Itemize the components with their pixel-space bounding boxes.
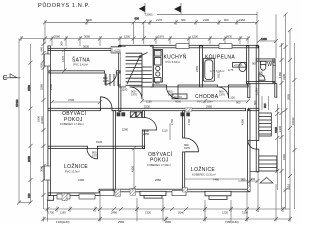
svg-text:4350: 4350: [130, 166, 134, 172]
svg-text:2080: 2080: [143, 132, 149, 136]
outer wall: left: [48, 46, 51, 196]
svg-text:15430: 15430: [15, 99, 19, 107]
svg-text:2695: 2695: [287, 94, 291, 100]
window top koupelna: [219, 44, 232, 49]
chimney callout 600: [132, 17, 146, 45]
svg-text:800: 800: [155, 81, 160, 85]
bottom dim slashes row1: [46, 207, 286, 211]
svg-text:1980: 1980: [261, 37, 267, 41]
corridor south wall mid: [112, 108, 246, 110]
stairs arrow: [127, 53, 148, 85]
center room interior dim: [132, 146, 136, 190]
WC bay bottom wall: [247, 82, 276, 84]
interior wall: kuchyn/koupelna divider: [200, 46, 203, 87]
room label chodba: [195, 94, 219, 104]
top dim slashes: [43, 20, 259, 24]
outer wall: bottom left segment: [48, 193, 101, 196]
strip wall below bay: [275, 84, 277, 98]
svg-text:1470: 1470: [61, 56, 65, 62]
svg-text:2580: 2580: [27, 85, 31, 91]
svg-text:1700: 1700: [48, 211, 54, 215]
corridor inner dim line: [140, 99, 250, 103]
kuchyn counter: [153, 50, 162, 83]
center room west wall upper stub: [142, 111, 144, 118]
door size texts: [103, 76, 225, 97]
room label kuchyn: [164, 54, 187, 65]
wall y=146 obyvaci-left bottom / loznice-left top: [48, 146, 88, 148]
chodba level box: [172, 94, 187, 99]
svg-text:3300: 3300: [282, 74, 286, 80]
entrance area dims: [262, 96, 269, 110]
center / loznice-right divider upper: [183, 111, 185, 138]
interior wall: stairhall west: [119, 46, 121, 112]
corridor north wall b: [178, 85, 218, 87]
svg-text:13000: 13000: [145, 12, 153, 16]
svg-text:900: 900: [252, 62, 257, 66]
entrance lower steps: [259, 156, 277, 171]
room label loznice left: [64, 162, 88, 174]
svg-text:±0,000: ±0,000: [174, 95, 183, 99]
svg-text:1970: 1970: [131, 93, 137, 97]
bottom dim slashes row2: [42, 217, 293, 221]
svg-text:POKOJ: POKOJ: [64, 117, 83, 123]
interior wall: kuchyn west: [151, 46, 153, 87]
svg-text:4060: 4060: [175, 100, 181, 104]
svg-text:1740: 1740: [187, 119, 191, 125]
svg-text:PVC 6,94m²: PVC 6,94m²: [166, 60, 181, 64]
svg-text:WC: WC: [267, 62, 276, 68]
svg-text:1100: 1100: [122, 88, 128, 92]
svg-text:1800: 1800: [274, 127, 278, 133]
svg-text:1,100: 1,100: [228, 96, 235, 100]
duct squares below corridor wall: [117, 112, 121, 116]
svg-text:4340: 4340: [282, 154, 286, 160]
svg-text:2580: 2580: [40, 84, 44, 90]
door arc loznice-left: [87, 148, 98, 159]
room label obyvaci pokoj center: [147, 151, 173, 167]
outer wall: right upper: [256, 46, 259, 141]
svg-text:300: 300: [60, 41, 64, 46]
svg-text:5030: 5030: [86, 18, 92, 22]
hatch block loznice divider: [183, 188, 188, 193]
interior wall: satna bottom: [49, 71, 105, 73]
door arc entrance: [248, 141, 257, 150]
svg-text:7480: 7480: [213, 178, 219, 182]
svg-text:PVC 5,41m²: PVC 5,41m²: [74, 63, 89, 67]
center / loznice-right divider lower: [183, 152, 185, 189]
svg-text:900: 900: [263, 103, 267, 108]
riser squares mid corridor: [181, 112, 185, 116]
hall west wall / room divider x=113: [113, 111, 115, 191]
svg-text:-0,020: -0,020: [114, 48, 122, 52]
left dimension line mid 2580: [27, 44, 33, 203]
stairs main: [121, 47, 152, 87]
bottom dim texts row2: [56, 220, 239, 224]
svg-text:1110: 1110: [162, 129, 168, 133]
corridor west dim line: [50, 100, 102, 104]
svg-text:3080: 3080: [27, 156, 31, 162]
window left loznice: [44, 166, 50, 180]
LOZNICE right east wall: [248, 110, 250, 191]
left dim texts: [37, 47, 44, 172]
svg-text:2100: 2100: [203, 18, 209, 22]
svg-text:2170: 2170: [156, 18, 162, 22]
svg-text:2980: 2980: [206, 105, 212, 109]
room label loznice right: [191, 165, 216, 177]
terrace bottom center: [140, 191, 166, 198]
top inner dim slashes: [19, 37, 250, 41]
hatch block loznice SE corner: [248, 185, 251, 191]
top inner dim texts: [54, 35, 232, 39]
duct boxes: [130, 112, 141, 117]
bay top callout: [257, 14, 278, 58]
outer wall: top right segment: [119, 45, 258, 48]
hatch block bottom a: [62, 193, 67, 201]
room label koupelna: [205, 55, 235, 74]
room label satna: [72, 57, 90, 67]
section marker C left: [3, 74, 21, 82]
svg-text:1970: 1970: [184, 146, 190, 150]
center room west wall lower stub: [142, 130, 144, 148]
svg-text:1970: 1970: [168, 93, 174, 97]
svg-text:1970: 1970: [158, 35, 164, 39]
window bottom 4: [172, 191, 186, 196]
svg-text:1500: 1500: [242, 211, 248, 215]
right chain extra line: [274, 104, 280, 190]
wc toilet: [260, 61, 266, 70]
svg-text:600: 600: [135, 17, 140, 21]
top dimension line middle: [45, 20, 257, 44]
koupelna washbasin: [239, 62, 246, 71]
bottom dim texts row1: [48, 211, 248, 215]
svg-text:4730: 4730: [68, 98, 74, 102]
svg-text:10430: 10430: [291, 117, 295, 125]
svg-text:2680: 2680: [155, 178, 161, 182]
left dimension chain: [42, 39, 46, 210]
svg-text:4390: 4390: [241, 119, 245, 125]
corridor south wall west: [48, 108, 101, 110]
corridor north wall a2: [142, 85, 167, 87]
svg-text:1984: 1984: [239, 18, 245, 22]
interior dim texts: [49, 41, 260, 183]
svg-text:LOŽNICE: LOŽNICE: [64, 162, 88, 170]
svg-text:300: 300: [251, 177, 256, 181]
WC bay top wall: [256, 59, 275, 61]
left dimension line outer 15430: [15, 39, 33, 205]
svg-text:2040: 2040: [178, 211, 184, 215]
svg-text:PŮDORYS 1.N.P.: PŮDORYS 1.N.P.: [38, 2, 90, 9]
right dim texts: [278, 72, 295, 190]
svg-text:1190: 1190: [146, 100, 152, 104]
outer wall: right below door: [256, 149, 259, 172]
svg-text:1740: 1740: [170, 119, 174, 125]
svg-text:2630: 2630: [226, 35, 232, 39]
svg-text:1345(1160): 1345(1160): [56, 220, 70, 224]
ramp triangle: [260, 178, 273, 184]
svg-text:1970: 1970: [259, 74, 265, 78]
svg-text:5230: 5230: [144, 105, 150, 109]
svg-text:2080: 2080: [54, 35, 60, 39]
svg-text:POKOJ: POKOJ: [150, 158, 169, 164]
section marker A top: [174, 3, 181, 15]
svg-text:3510: 3510: [287, 184, 291, 190]
svg-text:4,75: 4,75: [228, 68, 234, 72]
bottom dimension line upper: [44, 172, 291, 222]
svg-text:600: 600: [224, 18, 229, 22]
svg-text:ŠATNA: ŠATNA: [72, 57, 90, 64]
svg-text:LOŽNICE: LOŽNICE: [191, 165, 215, 173]
room label obyvaci pokoj left: [60, 110, 87, 126]
svg-text:7480(1160): 7480(1160): [225, 220, 239, 224]
svg-text:1945: 1945: [96, 140, 102, 144]
svg-text:+0,000: +0,000: [234, 63, 243, 67]
window left satna: [44, 54, 50, 66]
WC bay right wall: [273, 59, 275, 83]
entrance steps right: [259, 113, 272, 136]
svg-text:1970: 1970: [103, 79, 109, 83]
outer wall: top left segment: [48, 48, 120, 50]
top dimension line inner: [21, 36, 248, 46]
svg-text:KOBEREC 17,58m²: KOBEREC 17,58m²: [147, 163, 171, 167]
svg-text:1800: 1800: [37, 116, 41, 122]
svg-text:3080: 3080: [84, 35, 90, 39]
svg-text:KOBEREC 17,36m²: KOBEREC 17,36m²: [60, 122, 84, 126]
svg-text:1970: 1970: [92, 154, 98, 158]
terrace bottom right: [205, 191, 231, 199]
door arc koupelna: [218, 87, 229, 98]
KOUPELNA east wall: [247, 46, 249, 84]
corridor south wall east: [248, 108, 259, 110]
svg-text:PVC 11,18m²: PVC 11,18m²: [197, 100, 213, 104]
svg-text:1220: 1220: [222, 211, 228, 215]
window bottom 1: [57, 194, 70, 199]
koupelna level box: [233, 63, 247, 68]
top dim texts row: [86, 18, 245, 22]
satna interior dim line: [62, 48, 66, 73]
chodba east wall stub: [248, 84, 250, 98]
svg-text:1615: 1615: [217, 72, 221, 78]
svg-text:2980: 2980: [118, 220, 124, 224]
svg-text:KOUPELNA: KOUPELNA: [205, 55, 235, 61]
svg-text:KOBEREC 15,51m²: KOBEREC 15,51m²: [192, 173, 216, 177]
hatch block bottom b: [115, 189, 121, 196]
outer wall: right jog at entrance: [250, 171, 259, 173]
svg-text:1320: 1320: [145, 211, 151, 215]
door arc loznice-right: [185, 138, 199, 152]
outer wall: bottom-left corner foot: [48, 196, 54, 201]
door arc hall to center room: [144, 118, 157, 131]
koupelna bathtub: [203, 58, 214, 81]
right dimension chain: [275, 12, 296, 219]
svg-text:1970: 1970: [219, 93, 225, 97]
outer wall: bottom right segment: [99, 189, 250, 192]
stairs lower treads: [106, 74, 118, 86]
svg-text:3000: 3000: [83, 45, 89, 49]
svg-text:KUCHYŇ: KUCHYŇ: [164, 54, 187, 61]
svg-text:5280: 5280: [122, 128, 128, 132]
svg-text:2445: 2445: [195, 66, 199, 72]
section marker B top: [139, 3, 145, 14]
svg-text:1200: 1200: [192, 35, 198, 39]
svg-text:1200: 1200: [124, 35, 130, 39]
svg-text:600: 600: [40, 63, 44, 68]
bottom dimension line lower: [44, 217, 291, 222]
door arc corridor to obyvaci-left: [101, 97, 113, 109]
interior dim line loznice right: [170, 123, 245, 179]
svg-text:2480: 2480: [78, 178, 84, 182]
svg-text:3080: 3080: [40, 166, 44, 172]
door arc satna: [105, 73, 117, 85]
svg-text:2680: 2680: [165, 220, 171, 224]
svg-text:(1000): (1000): [40, 116, 44, 124]
corridor north wall a1: [119, 85, 126, 87]
door arc kuchyn: [167, 87, 179, 99]
window top kuchyn: [176, 44, 189, 49]
svg-text:800: 800: [253, 100, 257, 105]
svg-text:1190: 1190: [60, 211, 66, 215]
stair door arc to corridor: [130, 87, 143, 100]
chimney top: [111, 47, 126, 53]
svg-text:2480: 2480: [111, 211, 117, 215]
svg-text:1460: 1460: [278, 72, 282, 78]
window bottom 2: [79, 194, 95, 199]
hatch block bottom c: [130, 188, 136, 195]
svg-text:900: 900: [181, 18, 186, 22]
svg-text:1,200: 1,200: [255, 88, 259, 95]
top dimension line outer: [157, 12, 257, 46]
svg-text:C: C: [3, 75, 8, 82]
svg-text:1300: 1300: [278, 126, 282, 132]
svg-text:PVC 15,9m²: PVC 15,9m²: [65, 170, 80, 174]
svg-text:2580: 2580: [49, 84, 53, 90]
door arc wc: [259, 74, 265, 80]
svg-text:240: 240: [27, 193, 31, 198]
window bottom 3: [100, 191, 114, 196]
corridor north wall c: [229, 85, 249, 87]
svg-text:640: 640: [40, 47, 44, 52]
hatch block corridor wall: [185, 108, 192, 111]
